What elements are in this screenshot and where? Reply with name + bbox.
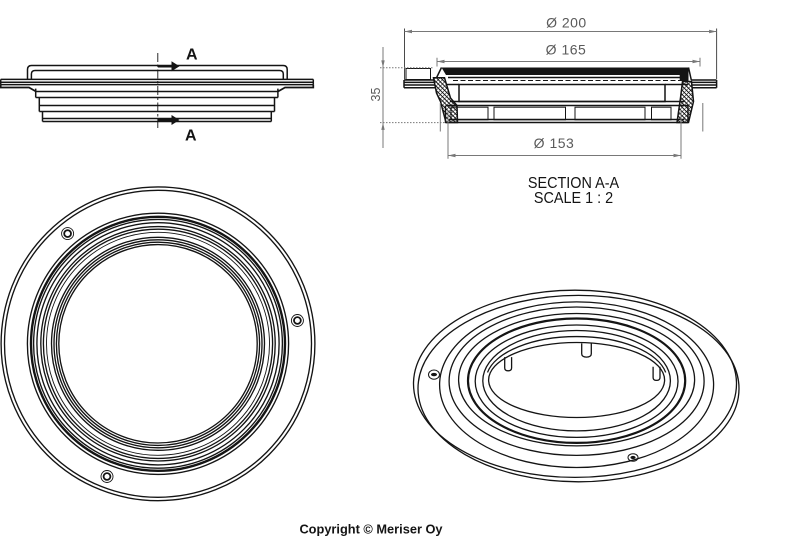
section view: cavity [459,85,665,102]
svg-text:A: A [185,128,197,145]
section view: tray walls and bottom [446,106,689,124]
iso rim base edge [440,302,714,468]
svg-text:Ø 200: Ø 200 [546,14,587,30]
isometric view [414,290,740,482]
side view: flange plate [1,79,314,91]
iso outer flange bottom edge [418,295,739,481]
section view: right rim hatched [677,82,694,123]
iso tab 2 [582,343,592,357]
outer circle 2 [5,190,312,497]
iso tab 3 [653,367,660,381]
section view: lid end slopes [436,67,692,80]
section view: flange plate [404,80,717,88]
section view: left rim hatched [434,78,458,123]
bolt hole 3 [101,471,113,483]
svg-text:A: A [186,47,198,64]
svg-text:Ø 153: Ø 153 [534,135,575,151]
dim 35 vertical [380,47,445,148]
iso snap ring [489,343,665,418]
outer circle [1,187,315,501]
iso hole bottom right [628,454,638,462]
svg-text:SCALE 1 : 2: SCALE 1 : 2 [534,189,613,207]
iso rim ring 4 thick [468,319,685,443]
iso tab 1 [505,357,512,371]
iso hole left [429,370,440,379]
svg-text:Ø 165: Ø 165 [546,41,587,57]
section view: right lid skirt [680,75,688,81]
section view: hidden line [453,80,684,82]
dim Ø200 [405,29,717,80]
section view: lid solid band [442,68,689,76]
section line A-A [158,53,180,129]
section view: left lip [406,69,431,80]
dim Ø153 [440,103,703,159]
rim circles [27,213,288,474]
section view: rib boxes [451,107,671,120]
svg-text:Copyright © Meriser Oy: Copyright © Meriser Oy [299,521,443,536]
svg-text:35: 35 [369,88,383,102]
bolt hole 1 [62,228,74,240]
side view: raised lid [28,66,288,80]
iso outer flange top edge [414,290,737,477]
iso inner wall upper arc [488,337,666,373]
iso rim ring 2 [449,307,704,455]
dim Ø165 [437,58,700,67]
front view [1,187,315,501]
section view: lid underside line [448,77,687,79]
bolt hole 2 [291,315,303,327]
section view: mid lines [446,102,688,106]
side view: lower stack [36,89,278,122]
dimensions (gray) [380,29,717,159]
iso rim ring 3 [459,314,695,446]
iso rim ring 5 [475,325,678,437]
iso cavity rim [483,331,671,431]
